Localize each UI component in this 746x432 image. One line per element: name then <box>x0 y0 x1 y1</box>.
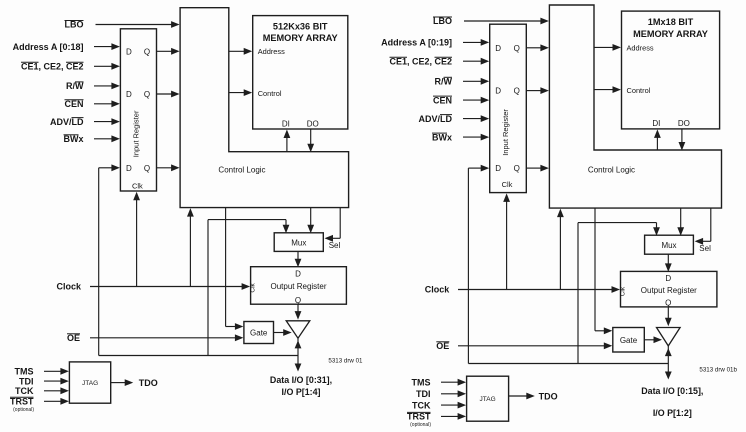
net label TDI (right) <box>416 389 431 399</box>
svg-text:TCK: TCK <box>15 386 34 396</box>
wire Clock branch to input register Clk (left) <box>133 192 140 287</box>
output register U5 (right) <box>619 271 717 307</box>
svg-text:Address: Address <box>627 44 654 53</box>
wire register Q2 to control logic (right) <box>526 87 549 94</box>
net label Address A [0:18] (left) <box>13 42 84 52</box>
wire LBO to control logic (right) <box>464 18 549 25</box>
wire DO to control logic (left) <box>307 129 314 152</box>
net label TDO (right) <box>539 391 558 401</box>
net label LBO (left) <box>65 20 84 30</box>
svg-text:TRST: TRST <box>10 397 34 407</box>
wire control logic to mux input B (right) <box>677 208 684 236</box>
wire control logic to memory address (left) <box>229 48 252 55</box>
svg-text:Sel: Sel <box>329 241 341 250</box>
wire address bus into input register (right) <box>463 39 489 46</box>
wire control logic to gate (left) <box>226 208 244 330</box>
svg-text:Output Register: Output Register <box>270 282 326 291</box>
svg-text:JTAG: JTAG <box>82 380 98 387</box>
wire TMS into JTAG (right) <box>441 379 466 386</box>
wire feedback to mux input A (right) <box>578 223 660 236</box>
svg-text:TDO: TDO <box>139 378 158 388</box>
svg-text:Clk: Clk <box>619 286 626 296</box>
svg-text:D: D <box>126 164 132 173</box>
wire control logic to memory control (right) <box>594 86 621 93</box>
wire feedback to mux input A (left) <box>208 220 289 234</box>
net label Address A [0:19] (right) <box>381 38 452 48</box>
wire register Q3 to control logic (right) <box>526 165 549 172</box>
net label TDO (left) <box>139 378 158 388</box>
net label Sel (left) <box>329 241 341 250</box>
svg-text:DO: DO <box>307 119 319 128</box>
control logic block U2 (right) <box>549 5 721 208</box>
svg-text:DO: DO <box>678 119 690 128</box>
svg-text:Q: Q <box>144 164 150 173</box>
wire register Q2 to control logic (left) <box>157 91 180 98</box>
svg-text:Address A [0:18]: Address A [0:18] <box>13 42 84 52</box>
net label LBO (right) <box>433 16 452 26</box>
net label BWx (left) <box>64 134 84 144</box>
wire R/W into input register (left) <box>94 83 120 90</box>
svg-text:Q: Q <box>665 299 671 308</box>
svg-text:Clk: Clk <box>249 282 256 292</box>
svg-text:Q: Q <box>295 296 301 305</box>
svg-text:Q: Q <box>514 164 520 173</box>
gate block U7 (right) <box>613 328 645 353</box>
svg-text:5313 drw 01b: 5313 drw 01b <box>699 367 737 374</box>
wire BWx into input register (left) <box>94 135 120 142</box>
wire control logic to gate (right) <box>595 208 612 334</box>
svg-text:Clk: Clk <box>132 182 143 191</box>
svg-text:Clock: Clock <box>425 285 451 295</box>
net label CE1 (right) <box>389 56 452 66</box>
wire control logic to memory address (right) <box>594 44 621 51</box>
net label Clock (right) <box>425 285 451 295</box>
net label CE1 (left) <box>21 62 84 72</box>
svg-text:Mux: Mux <box>661 241 676 250</box>
wire I/O write-data feedback (right) <box>468 165 668 364</box>
wire output register Q to buffer (right) <box>665 307 672 326</box>
svg-text:Gate: Gate <box>250 329 268 338</box>
wire output register Q to buffer (left) <box>295 304 302 319</box>
gate block U7 (left) <box>244 322 274 344</box>
svg-text:D: D <box>126 47 132 56</box>
wire mux select Sel (left) <box>325 208 341 242</box>
wire mux to output register D (right) <box>665 254 672 272</box>
svg-text:Data I/O [0:15],: Data I/O [0:15], <box>641 386 703 396</box>
svg-text:Output Register: Output Register <box>641 286 697 295</box>
svg-text:R/W: R/W <box>66 81 84 91</box>
svg-text:ADV/LD: ADV/LD <box>419 114 453 124</box>
svg-text:Address: Address <box>258 47 285 56</box>
wire JTAG TDO output (right) <box>509 393 535 400</box>
net label TCK (right) <box>412 400 431 410</box>
wire CE1 into input register (right) <box>463 58 489 65</box>
wire LBO to control logic (left) <box>96 21 180 28</box>
svg-text:Address A [0:19]: Address A [0:19] <box>381 38 452 48</box>
net label TMS (right) <box>412 377 431 387</box>
svg-text:512Kx36 BIT: 512Kx36 BIT <box>273 22 328 32</box>
net label TMS (left) <box>15 367 34 377</box>
svg-text:CEN: CEN <box>433 95 452 105</box>
svg-text:Clock: Clock <box>56 282 82 292</box>
wire TRST into JTAG (right) <box>441 413 466 420</box>
wire CE1 into input register (left) <box>94 63 120 70</box>
port label data I/O (left) <box>270 375 332 397</box>
svg-text:MEMORY ARRAY: MEMORY ARRAY <box>633 29 708 39</box>
svg-text:DI: DI <box>652 119 660 128</box>
svg-text:BWx: BWx <box>64 134 84 144</box>
svg-text:TCK: TCK <box>412 400 431 410</box>
net label R/W (right) <box>435 77 453 87</box>
svg-text:D: D <box>495 87 501 96</box>
svg-text:I/O P[1:2]: I/O P[1:2] <box>653 408 692 418</box>
net label BWx (right) <box>432 132 452 142</box>
svg-text:Control: Control <box>258 89 282 98</box>
svg-text:TDO: TDO <box>539 391 558 401</box>
svg-text:D: D <box>295 269 301 278</box>
net label OE (right) <box>436 341 449 351</box>
svg-text:LBO: LBO <box>433 16 452 26</box>
wire Clock branch to control logic (left) <box>187 208 194 286</box>
net label TCK (left) <box>15 386 34 396</box>
wire DI into memory (left) <box>284 130 291 152</box>
svg-text:D: D <box>665 274 671 283</box>
svg-text:I/O P[1:4]: I/O P[1:4] <box>282 387 321 397</box>
svg-text:Gate: Gate <box>620 336 638 345</box>
wire OE to gate (right) <box>458 342 612 349</box>
port label data I/O (right) <box>641 386 703 418</box>
wire mux to output register D (left) <box>295 251 302 267</box>
svg-text:D: D <box>495 164 501 173</box>
svg-text:1Mx18 BIT: 1Mx18 BIT <box>648 17 694 27</box>
svg-text:5313 drw 01: 5313 drw 01 <box>328 358 363 365</box>
wire TCK into JTAG (right) <box>441 402 466 409</box>
wire TRST into JTAG (left) <box>44 398 69 405</box>
mux U4 (left) <box>274 233 323 252</box>
net label TDI (left) <box>19 376 34 386</box>
input register U1 (right) <box>490 24 527 192</box>
net label OE (left) <box>67 333 80 343</box>
tri-state output buffer U6 (left) <box>286 321 310 338</box>
pin labels D/Q input register (left) <box>126 47 150 173</box>
svg-text:CEN: CEN <box>64 99 83 109</box>
net label TRST (left) <box>10 397 34 413</box>
wire DO to control logic (right) <box>679 129 686 151</box>
wire TDI into JTAG (right) <box>441 390 466 397</box>
svg-text:Q: Q <box>144 90 150 99</box>
pin labels D/Q input register (right) <box>495 44 520 173</box>
wire OE to gate (left) <box>90 334 243 341</box>
svg-text:Control: Control <box>627 86 651 95</box>
net label R/W (left) <box>66 81 84 91</box>
mux U4 (right) <box>645 235 694 254</box>
svg-text:TDI: TDI <box>416 389 431 399</box>
wire TDI into JTAG (left) <box>44 378 69 385</box>
wire TMS into JTAG (left) <box>44 368 69 375</box>
net label Sel (right) <box>699 244 711 253</box>
output register U5 (left) <box>249 267 346 305</box>
svg-text:(optional): (optional) <box>13 407 34 413</box>
wire ADV/LD into input register (left) <box>94 118 120 125</box>
svg-text:Control Logic: Control Logic <box>218 165 265 174</box>
wire register Q3 to control logic (left) <box>157 164 180 171</box>
wire BWx into input register (right) <box>463 134 489 141</box>
drawing number label (left) <box>328 358 363 365</box>
svg-text:MEMORY ARRAY: MEMORY ARRAY <box>263 33 338 43</box>
wire CEN into input register (left) <box>94 100 120 107</box>
tri-state output buffer U6 (right) <box>657 328 681 346</box>
wire gate enable to buffer (right) <box>644 336 662 343</box>
memory array block U3 (right) <box>622 11 720 129</box>
svg-text:(optional): (optional) <box>410 422 431 428</box>
svg-text:TMS: TMS <box>412 377 431 387</box>
svg-text:CE1, CE2, CE2: CE1, CE2, CE2 <box>21 62 84 72</box>
svg-text:Q: Q <box>514 44 520 53</box>
wire Clock branch to input register Clk (right) <box>503 193 510 289</box>
net label CEN (right) <box>433 95 452 105</box>
svg-text:Q: Q <box>514 87 520 96</box>
net label ADV/LD (right) <box>419 114 453 124</box>
svg-text:Sel: Sel <box>699 244 711 253</box>
wire CEN into input register (right) <box>463 97 489 104</box>
svg-text:D: D <box>126 90 132 99</box>
JTAG block U8 (left) <box>69 362 110 403</box>
control logic block U2 (left) <box>180 8 349 208</box>
wire buffer to data I/O pad (left) <box>295 338 302 371</box>
svg-text:CE1, CE2, CE2: CE1, CE2, CE2 <box>389 56 452 66</box>
svg-text:JTAG: JTAG <box>480 396 496 403</box>
net label Clock (left) <box>56 282 82 292</box>
net label TRST (right) <box>407 412 431 428</box>
svg-text:DI: DI <box>282 119 290 128</box>
JTAG block U8 (right) <box>467 376 509 421</box>
wire register Q1 to control logic (right) <box>526 44 549 51</box>
wire control logic to mux input B (left) <box>307 208 314 234</box>
wire gate enable to buffer (left) <box>274 329 292 336</box>
svg-text:Input Register: Input Register <box>131 110 140 157</box>
wire Clock branch to control logic (right) <box>557 209 564 290</box>
svg-text:Input Register: Input Register <box>501 109 510 156</box>
net label CEN (left) <box>64 99 83 109</box>
wire DI into memory (right) <box>654 129 661 150</box>
svg-text:Mux: Mux <box>291 238 306 247</box>
net label ADV/LD (left) <box>50 117 84 127</box>
svg-text:BWx: BWx <box>432 132 452 142</box>
memory array block U3 (left) <box>253 16 348 129</box>
wire buffer to data I/O pad (right) <box>665 346 672 380</box>
wire register Q1 to control logic (left) <box>157 48 180 55</box>
svg-text:R/W: R/W <box>435 77 453 87</box>
svg-text:ADV/LD: ADV/LD <box>50 117 84 127</box>
svg-text:TRST: TRST <box>407 412 431 422</box>
svg-text:Q: Q <box>144 47 150 56</box>
input register U1 (left) <box>120 29 156 191</box>
svg-text:OE: OE <box>67 333 80 343</box>
wire I/O write-data feedback (left) <box>99 164 298 355</box>
wire TCK into JTAG (left) <box>44 387 69 394</box>
svg-text:D: D <box>495 44 501 53</box>
svg-text:Clk: Clk <box>502 180 513 189</box>
wire JTAG TDO output (left) <box>111 379 134 386</box>
svg-text:TDI: TDI <box>19 376 34 386</box>
svg-text:TMS: TMS <box>15 367 34 377</box>
svg-text:OE: OE <box>436 341 449 351</box>
wire control logic to memory control (left) <box>229 89 252 96</box>
svg-text:Control Logic: Control Logic <box>588 166 635 175</box>
svg-text:LBO: LBO <box>65 20 84 30</box>
wire ADV/LD into input register (right) <box>463 115 489 122</box>
wire address bus into input register (left) <box>94 43 120 50</box>
wire mux select Sel (right) <box>695 208 711 245</box>
drawing number label (right) <box>699 367 737 374</box>
wire R/W into input register (right) <box>463 78 489 85</box>
wire Clock to output register (left) <box>90 283 250 290</box>
wire Clock to output register (right) <box>458 286 620 293</box>
svg-text:Data I/O [0:31],: Data I/O [0:31], <box>270 375 332 385</box>
